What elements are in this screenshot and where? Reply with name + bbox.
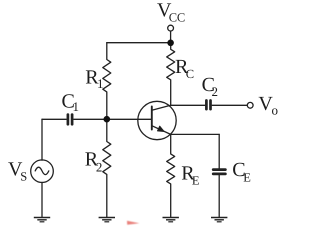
red artifact mark	[127, 221, 139, 225]
ground Vs	[34, 218, 50, 222]
ground R2	[99, 218, 115, 222]
wire Vs bottom	[41, 182, 43, 217]
wire collector to C2	[171, 104, 205, 106]
ground RE	[163, 218, 179, 222]
svg-text:1: 1	[73, 99, 80, 114]
label R1	[85, 67, 103, 91]
svg-text:CC: CC	[169, 11, 185, 25]
wire C2 to output	[212, 104, 247, 106]
label R2	[85, 149, 103, 175]
source Vs	[31, 160, 54, 183]
svg-text:E: E	[192, 174, 200, 188]
resistor RE	[167, 134, 175, 217]
terminal Vo	[247, 102, 253, 108]
junction base node	[104, 116, 111, 123]
wire emitter node	[171, 133, 220, 135]
svg-text:2: 2	[212, 84, 219, 99]
ground CE	[211, 218, 227, 222]
svg-text:2: 2	[96, 159, 103, 174]
svg-text:o: o	[272, 103, 279, 118]
wire Vs top	[41, 119, 43, 160]
capacitor C2	[206, 101, 210, 110]
capacitor CE	[213, 170, 225, 174]
capacitor C1	[68, 115, 72, 125]
label RC	[175, 56, 194, 81]
label Vo	[258, 93, 278, 118]
junction Vcc node	[167, 40, 174, 47]
transistor Q1	[138, 101, 176, 139]
wire input node	[42, 118, 66, 120]
label C2	[202, 74, 218, 99]
label C1	[62, 90, 80, 114]
wire top rail	[107, 42, 171, 44]
resistor R2	[103, 119, 111, 217]
wire CE bottom	[218, 175, 220, 217]
label RE	[181, 162, 200, 187]
label Vcc	[157, 0, 185, 25]
svg-text:1: 1	[97, 76, 104, 91]
svg-text:C: C	[186, 67, 194, 81]
terminal Vcc	[168, 25, 174, 31]
label CE	[232, 159, 251, 184]
svg-text:S: S	[20, 170, 27, 184]
wire CE top	[218, 134, 220, 168]
wire base node	[74, 118, 152, 120]
wire Vcc stub	[170, 31, 172, 43]
resistor R1	[103, 43, 111, 120]
svg-text:E: E	[243, 170, 251, 184]
label Vs	[8, 158, 27, 183]
resistor RC	[167, 43, 175, 106]
